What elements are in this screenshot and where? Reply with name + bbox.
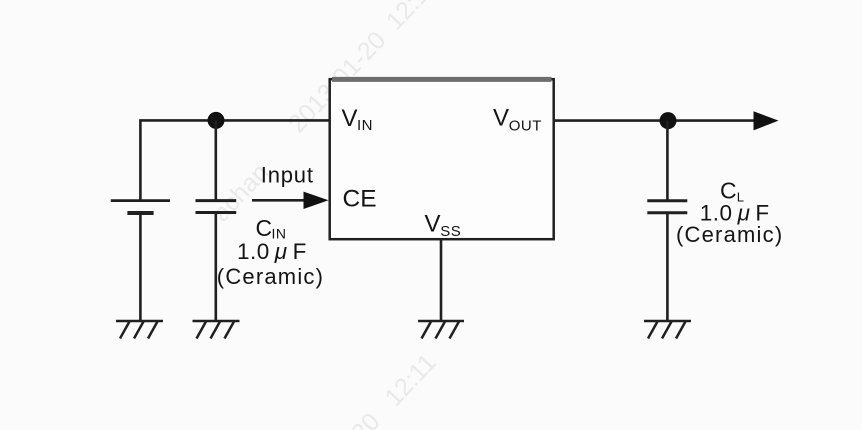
svg-text:C: C bbox=[720, 177, 737, 203]
svg-text:(Ceramic): (Ceramic) bbox=[217, 264, 324, 289]
wire: battery negative lead to ground bbox=[139, 213, 142, 321]
capacitor CL bbox=[647, 201, 687, 213]
arrow: CE input arrowhead bbox=[304, 192, 329, 209]
wire: VSS pin to ground bbox=[440, 240, 443, 321]
ground (CIN) bbox=[193, 321, 240, 339]
svg-text:V: V bbox=[342, 105, 358, 132]
wire: CE input arrow line bbox=[252, 199, 308, 202]
svg-text:CE: CE bbox=[343, 186, 377, 213]
battery (input supply) bbox=[111, 201, 170, 213]
ground (CL) bbox=[644, 321, 691, 339]
node: output junction dot bbox=[660, 112, 677, 129]
ground (VSS) bbox=[418, 321, 464, 339]
op-amp U1: regulator IC body bbox=[330, 79, 554, 239]
arrow: output arrowhead bbox=[754, 111, 779, 130]
svg-text:20 12:11: 20 12:11 bbox=[346, 349, 442, 430]
svg-text:(Ceramic): (Ceramic) bbox=[676, 222, 783, 247]
svg-text:IN: IN bbox=[357, 117, 373, 134]
svg-text:SS: SS bbox=[440, 223, 461, 240]
ground (battery) bbox=[116, 321, 163, 339]
svg-text:Input: Input bbox=[261, 163, 314, 188]
pin label VOUT bbox=[493, 104, 542, 134]
svg-text:1.0 μ F: 1.0 μ F bbox=[237, 239, 307, 264]
svg-text:C: C bbox=[256, 215, 273, 241]
wire: input top rail from battery to VIN pin bbox=[139, 119, 330, 122]
pin label VSS bbox=[425, 211, 462, 240]
capacitor CIN bbox=[196, 201, 237, 213]
node: input junction dot bbox=[208, 112, 225, 129]
wire: CL top lead bbox=[666, 121, 669, 200]
value label CIN bbox=[217, 215, 324, 289]
value label CL bbox=[676, 177, 783, 247]
svg-text:V: V bbox=[493, 104, 509, 131]
wire: CL bottom lead to ground bbox=[666, 213, 669, 321]
wire: CIN bottom lead to ground bbox=[215, 213, 218, 321]
svg-text:OUT: OUT bbox=[509, 118, 542, 135]
wire: battery positive lead (down from rail) bbox=[139, 120, 142, 200]
wire: output rail from VOUT to arrow bbox=[554, 119, 758, 122]
pin label VIN bbox=[342, 105, 374, 134]
svg-text:V: V bbox=[425, 211, 441, 238]
wire: CIN top lead bbox=[215, 120, 218, 200]
